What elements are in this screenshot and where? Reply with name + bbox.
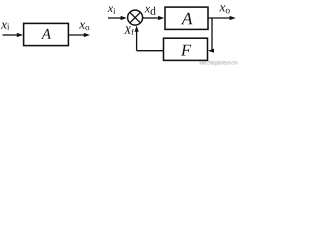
wire: block F output leftward	[137, 50, 164, 52]
wire: summing junction to right block A	[143, 16, 165, 20]
watermark	[199, 60, 237, 66]
wire: input arrow into left block A	[3, 33, 24, 37]
node label X_f (feedback signal)	[124, 26, 134, 34]
label A (right block)	[181, 13, 193, 25]
wire: input arrow into summing junction	[108, 16, 127, 20]
label F (feedback block)	[181, 45, 191, 56]
summing junction circle	[128, 10, 143, 25]
node label x_d (deviation signal)	[145, 7, 156, 15]
block A (left, open-loop)	[24, 23, 69, 45]
wire: feedback takeoff from output line	[211, 18, 213, 51]
wire: output arrow from left block A	[68, 33, 90, 37]
wire: output arrow to x_o (right)	[208, 16, 236, 20]
wire: feedback arrow up into summing junction	[135, 26, 139, 51]
node label x_o (right diagram output)	[219, 5, 229, 13]
summing junction cross X	[130, 12, 140, 22]
block A (right, forward path)	[165, 7, 208, 29]
node label x_i (left diagram input)	[1, 23, 9, 30]
node label x_i (right diagram input)	[108, 6, 116, 13]
wire: feedback arrow into block F	[208, 49, 214, 53]
node label x_o (left diagram output)	[79, 23, 89, 31]
block F (feedback path)	[164, 38, 208, 60]
label A (left block)	[41, 29, 51, 39]
